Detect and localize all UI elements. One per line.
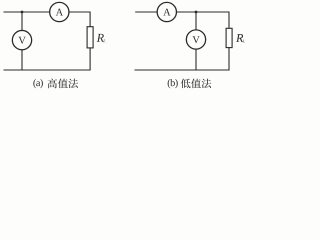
wire: (b) right vertical below resistor xyxy=(228,48,230,70)
wire: (a) top-right segment with corner down to resistor xyxy=(69,12,90,27)
wire: (b) voltmeter top lead xyxy=(195,12,197,30)
wire: (b) top segment from ammeter with corner down to resistor xyxy=(176,12,229,28)
wire: (a) bottom return wire xyxy=(4,69,91,71)
label RL (b) xyxy=(236,34,245,42)
voltmeter V (a) xyxy=(12,30,31,49)
wire: (b) bottom return wire xyxy=(135,69,230,71)
voltmeter V (b) xyxy=(186,30,205,49)
wire: (a) voltmeter top lead xyxy=(21,12,23,31)
ammeter A (b) xyxy=(157,2,176,21)
wire: (b) voltmeter bottom lead xyxy=(195,49,197,70)
wire: (a) voltmeter bottom lead xyxy=(21,50,23,70)
caption (b) 低值法 xyxy=(168,79,212,89)
wire: (a) right vertical below resistor xyxy=(89,48,91,70)
wire: (a) top-left lead xyxy=(4,11,50,13)
node: junction of voltmeter branch on (a) top wire xyxy=(21,11,24,14)
wire: (b) top-left lead xyxy=(135,11,157,13)
caption (a) 高值法 xyxy=(33,79,78,89)
label RL (a) xyxy=(97,34,106,42)
node: junction of voltmeter branch on (b) top wire xyxy=(195,11,198,14)
resistor RL (a) xyxy=(87,27,93,48)
ammeter A (a) xyxy=(50,2,69,21)
resistor RL (b) xyxy=(226,28,232,47)
